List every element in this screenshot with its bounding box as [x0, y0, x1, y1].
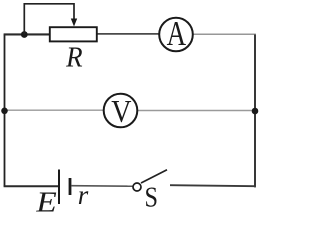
- svg-text:A: A: [167, 14, 187, 53]
- node junction dot (rheostat tap, top-left): [21, 31, 28, 38]
- switch S pivot circle: [133, 183, 141, 191]
- battery E long plate: [58, 170, 60, 205]
- wire: bottom row middle segment (battery to switch): [72, 185, 133, 188]
- wire: left rail: [4, 35, 6, 187]
- svg-text:E: E: [35, 186, 56, 214]
- wire: voltmeter row left segment: [5, 109, 105, 111]
- battery E short plate: [69, 178, 72, 195]
- wire: rheostat slider bypass loop: [24, 4, 74, 35]
- wire: top row left segment (node to resistor): [4, 33, 50, 35]
- svg-text:V: V: [111, 93, 131, 129]
- wire: voltmeter row right segment: [137, 110, 255, 112]
- svg-text:r: r: [78, 180, 89, 210]
- node junction dot (voltmeter right): [252, 108, 259, 115]
- wire: top row right segment (ammeter to right rail): [193, 33, 256, 35]
- resistor R body: [50, 27, 97, 41]
- switch S blade (open): [141, 170, 167, 183]
- voltmeter circle: [104, 94, 138, 128]
- wire: bottom row left segment (left rail to battery): [4, 185, 58, 187]
- wire: right rail: [254, 35, 256, 188]
- rheostat slider arrowhead: [71, 19, 77, 27]
- svg-text:S: S: [145, 181, 158, 213]
- wire: top row middle segment (resistor to ammeter): [97, 33, 160, 35]
- node junction dot (voltmeter left): [1, 108, 8, 115]
- ammeter A circle: [159, 18, 193, 52]
- wire: bottom row right segment (switch to right rail): [170, 185, 256, 186]
- svg-text:R: R: [65, 42, 82, 74]
